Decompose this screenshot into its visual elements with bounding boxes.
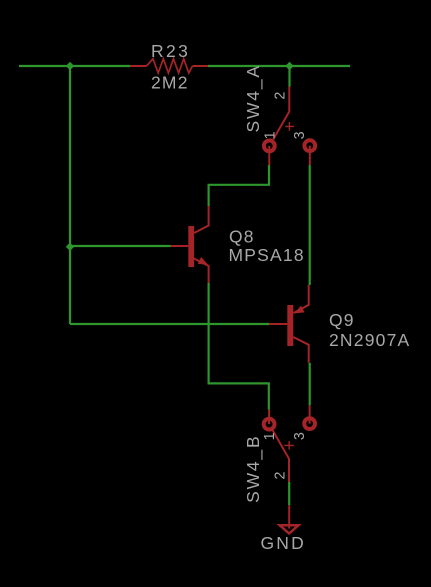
svg-text:2: 2 xyxy=(272,472,288,480)
svg-text:R23: R23 xyxy=(151,41,190,61)
svg-text:SW4_B: SW4_B xyxy=(243,435,264,503)
svg-text:2: 2 xyxy=(272,92,288,100)
svg-text:2N2907A: 2N2907A xyxy=(329,330,410,350)
svg-text:1: 1 xyxy=(262,432,278,440)
svg-text:MPSA18: MPSA18 xyxy=(229,245,305,265)
svg-text:3: 3 xyxy=(292,432,308,440)
svg-text:3: 3 xyxy=(292,131,308,139)
svg-text:2M2: 2M2 xyxy=(151,73,189,93)
svg-text:1: 1 xyxy=(262,131,278,139)
svg-text:SW4_A: SW4_A xyxy=(243,64,264,132)
svg-text:Q9: Q9 xyxy=(329,310,355,330)
svg-text:Q8: Q8 xyxy=(229,226,255,246)
svg-text:GND: GND xyxy=(261,533,307,553)
